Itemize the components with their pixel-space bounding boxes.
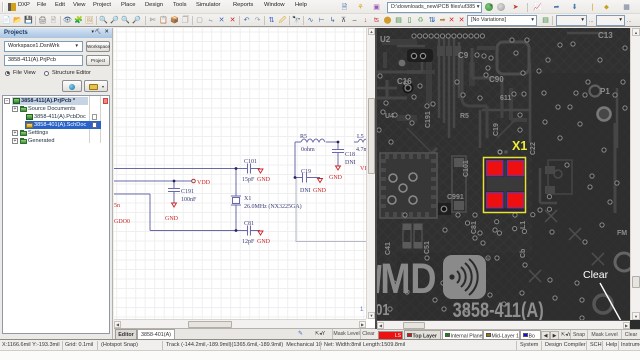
svg-text:C18: C18	[345, 152, 355, 158]
svg-text:GND: GND	[257, 177, 271, 183]
svg-text:C90: C90	[489, 75, 504, 84]
svg-text:C101: C101	[463, 160, 470, 177]
svg-text:26.0MHz (NX3225GA): 26.0MHz (NX3225GA)	[244, 203, 302, 210]
svg-text:1: 1	[360, 307, 364, 313]
svg-text:3858-411(A): 3858-411(A)	[453, 298, 544, 320]
svg-text:C9: C9	[458, 51, 469, 60]
svg-text:0ohm: 0ohm	[301, 147, 315, 153]
svg-text:C51: C51	[424, 241, 431, 254]
svg-text:C41: C41	[385, 242, 392, 255]
svg-text:C991: C991	[447, 194, 464, 201]
svg-text:R5: R5	[460, 113, 469, 120]
svg-text:12pF: 12pF	[242, 239, 255, 245]
svg-text:DNI: DNI	[345, 160, 356, 166]
svg-text:C191: C191	[181, 189, 194, 195]
svg-text:4.7nH: 4.7nH	[356, 147, 366, 153]
svg-text:5n: 5n	[114, 203, 120, 209]
svg-text:C19: C19	[301, 169, 311, 175]
svg-text:GDO0: GDO0	[114, 219, 130, 225]
svg-text:C22: C22	[530, 142, 537, 155]
svg-text:GND: GND	[329, 175, 343, 181]
svg-text:FM: FM	[617, 230, 627, 237]
svg-text:C191: C191	[425, 111, 432, 128]
svg-text:U2: U2	[380, 35, 391, 44]
svg-text:L5: L5	[357, 134, 364, 140]
svg-text:C16: C16	[397, 77, 412, 86]
svg-text:MD: MD	[380, 255, 436, 303]
svg-text:GND: GND	[165, 216, 179, 222]
svg-text:C81: C81	[244, 221, 254, 227]
svg-text:U4: U4	[385, 113, 394, 120]
svg-text:Clear: Clear	[583, 269, 609, 281]
svg-text:GND: GND	[313, 188, 327, 194]
svg-text:C19: C19	[493, 123, 500, 136]
svg-text:Cb: Cb	[520, 249, 527, 258]
svg-text:X1: X1	[244, 196, 251, 202]
svg-text:GND: GND	[257, 239, 271, 245]
svg-text:X1: X1	[512, 139, 527, 153]
svg-text:C13: C13	[598, 31, 613, 40]
svg-text:VDD: VDD	[197, 180, 211, 186]
svg-text:C81: C81	[471, 221, 478, 234]
svg-text:100nF: 100nF	[181, 197, 197, 203]
svg-text:DNI: DNI	[300, 188, 311, 194]
svg-text:C101: C101	[244, 159, 257, 165]
svg-text:R5: R5	[300, 134, 307, 140]
svg-text:L1: L1	[520, 221, 527, 229]
svg-text:611: 611	[500, 95, 511, 102]
svg-text:01: 01	[377, 302, 389, 320]
svg-text:P1: P1	[600, 87, 610, 96]
svg-text:15pF: 15pF	[242, 177, 255, 183]
